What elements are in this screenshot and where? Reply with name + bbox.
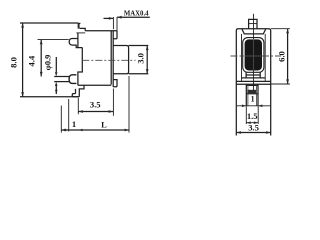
svg-text:1: 1 [251, 95, 255, 104]
svg-text:MAX0.4: MAX0.4 [124, 10, 149, 17]
svg-text:1: 1 [72, 119, 76, 129]
svg-text:8.0: 8.0 [9, 57, 19, 68]
svg-text:6.0: 6.0 [277, 51, 287, 62]
svg-text:3.5: 3.5 [90, 99, 101, 109]
svg-text:1.5: 1.5 [247, 111, 258, 121]
svg-text:4.4: 4.4 [26, 55, 36, 66]
svg-text:3.0: 3.0 [136, 53, 146, 64]
svg-text:3.5: 3.5 [248, 123, 259, 133]
svg-text:φ0.9: φ0.9 [44, 55, 53, 71]
svg-text:L: L [101, 119, 107, 129]
